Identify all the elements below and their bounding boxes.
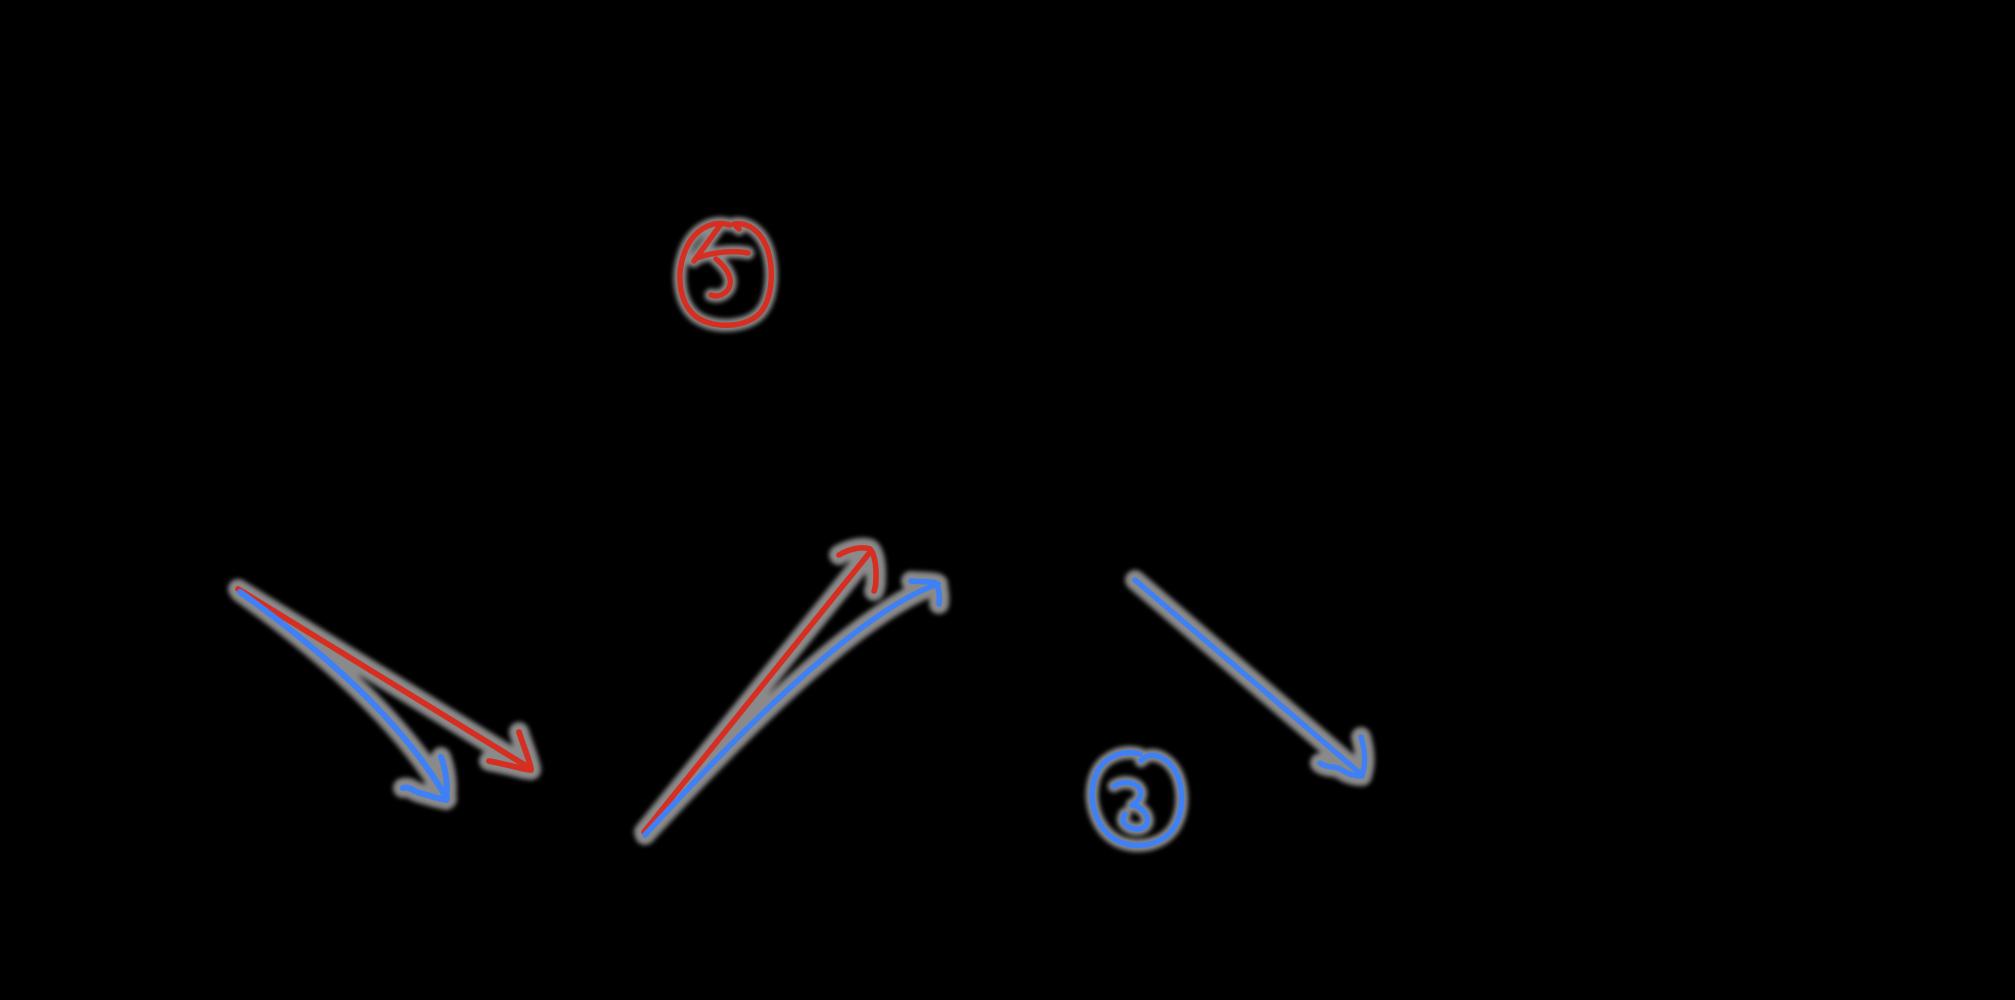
left blue arrow shaft xyxy=(240,592,447,800)
halo glow under blue circled 3 xyxy=(1092,753,1182,846)
halo glow under right blue arrow xyxy=(1135,580,1365,776)
halo glow under red circled 5 xyxy=(680,223,771,325)
left blue arrow head upper wing xyxy=(441,757,447,799)
halo glow under left pair of arrows xyxy=(238,589,531,800)
left red arrow shaft xyxy=(238,589,531,770)
middle red arrow head xyxy=(839,548,876,591)
blue 3 glyph xyxy=(1114,782,1147,829)
left red arrow head upper wing xyxy=(519,732,531,769)
middle blue arrow shaft xyxy=(645,581,939,835)
middle blue arrow head xyxy=(911,581,939,604)
left red arrow head left wing xyxy=(489,761,531,770)
red 5 bar xyxy=(697,252,748,258)
blue circled 3 : circle xyxy=(1092,753,1182,846)
red circled 5 : circle xyxy=(680,223,771,325)
red 5 belly xyxy=(711,259,730,296)
middle red arrow shaft xyxy=(644,548,876,832)
red 5 slash xyxy=(694,224,721,261)
right blue arrow shaft xyxy=(1135,580,1365,776)
right blue arrow head upper wing xyxy=(1361,737,1365,775)
right blue arrow head wavy wing xyxy=(1320,763,1362,776)
left blue arrow head wavy wing xyxy=(403,788,446,800)
halo glow under middle pair of arrows xyxy=(644,548,939,835)
